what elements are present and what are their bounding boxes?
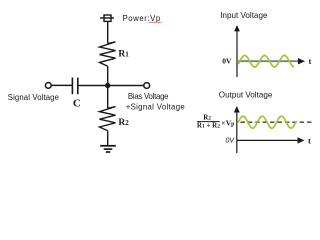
input horizontal axis arrowhead [298,58,305,64]
input plot vertical axis [236,29,238,77]
svg-text:Signal Voltage: Signal Voltage [8,93,59,102]
red underline under Vp [149,21,162,23]
wire terminal to capacitor [51,84,72,86]
node junction dot [105,83,110,88]
capacitor C [72,78,77,95]
formula fraction bar [197,121,220,123]
wire node to R2 [107,86,109,109]
output dashed bias level line [241,121,315,123]
input plot horizontal axis (gray) [237,60,299,62]
resistor R1 [100,42,116,66]
output plot vertical axis [236,110,238,153]
wire power to R1 [107,21,109,43]
output horizontal axis arrowhead [298,137,305,143]
svg-text:R2: R2 [118,118,129,128]
wire node to bias terminal [108,85,144,87]
svg-text:0V: 0V [222,56,232,65]
svg-text:t: t [309,56,312,66]
output vertical axis arrowhead [234,106,240,113]
output horizontal axis [237,139,298,141]
signal terminal [45,83,51,89]
input sine wave [239,55,294,67]
input vertical axis arrowhead [234,25,240,31]
svg-text:0V: 0V [226,138,236,145]
svg-text:t: t [308,135,311,145]
svg-text:Input Voltage: Input Voltage [220,11,268,20]
resistor R2 [100,107,116,131]
power terminal symbol [100,15,114,21]
output sine wave [238,116,296,128]
svg-text:Output Voltage: Output Voltage [219,90,273,99]
svg-text:R1 + R2: R1 + R2 [197,122,220,130]
svg-text:R1: R1 [118,50,129,60]
ground [100,146,116,152]
bias terminal [144,83,150,89]
wire R1 to node [107,66,109,86]
svg-text:+Signal Voltage: +Signal Voltage [126,102,185,111]
wire capacitor to node [78,85,108,87]
svg-text:R2: R2 [203,113,211,121]
wire R2 to ground [107,131,109,146]
svg-text:C: C [73,98,81,110]
svg-text:Bias Voltage: Bias Voltage [128,92,168,101]
svg-text:Vp: Vp [226,118,235,127]
